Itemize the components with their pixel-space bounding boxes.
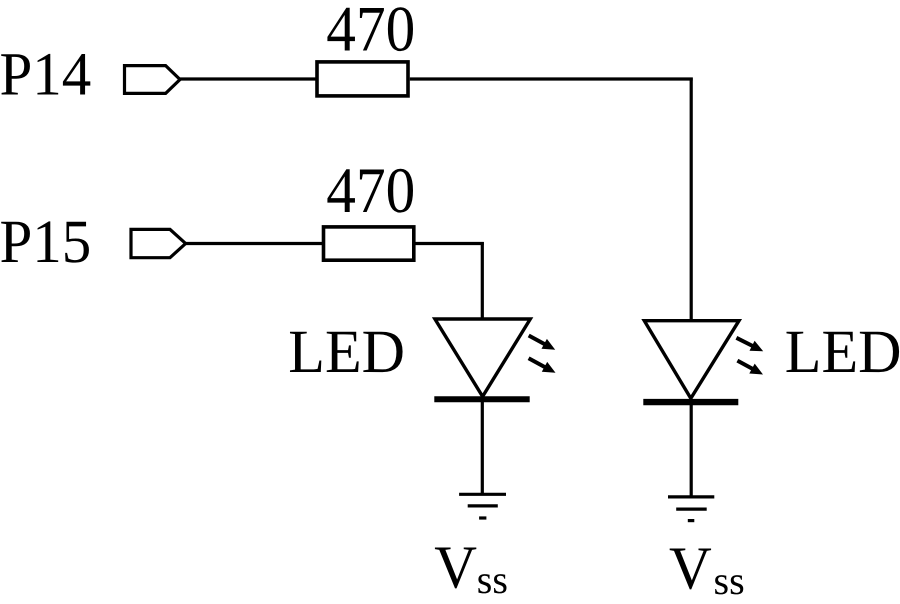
wire P14 pin to R1 [179, 77, 317, 80]
wire LED1 cathode to ground [481, 399, 484, 494]
wire P15 pin to R2 [185, 242, 324, 245]
LED D1 emission arrow 1 [529, 336, 556, 350]
svg-text:ss: ss [477, 557, 508, 602]
resistor R2 body [324, 227, 414, 260]
svg-text:V: V [669, 535, 712, 602]
wire corner down to LED2 anode [690, 78, 693, 323]
wire R1 to corner [410, 77, 693, 80]
svg-text:LED: LED [785, 318, 900, 386]
LED D2 emission arrow 2 [737, 361, 763, 375]
net Vss label (right) [669, 535, 745, 603]
pin P14 connector [125, 66, 181, 94]
LED D2 cathode bar [643, 399, 738, 405]
svg-text:470: 470 [326, 0, 415, 66]
LED D1 triangle [435, 319, 530, 397]
LED D2 emission arrow 1 [736, 338, 763, 352]
pin P15 connector [131, 229, 186, 257]
LED D1 cathode bar [434, 396, 529, 402]
wire LED2 cathode to ground [690, 402, 693, 497]
net Vss label (left) [434, 535, 508, 602]
ground GND1 [459, 494, 506, 518]
svg-text:ss: ss [714, 558, 745, 603]
LED D1 emission arrow 2 [529, 358, 556, 373]
ground GND2 [668, 497, 714, 521]
LED D2 triangle [644, 321, 739, 399]
svg-text:P15: P15 [0, 208, 91, 276]
svg-text:P14: P14 [0, 40, 91, 108]
wire corner down to LED1 anode [481, 242, 484, 321]
wire R2 to corner [414, 242, 484, 245]
resistor R1 body [317, 62, 408, 96]
svg-text:470: 470 [326, 155, 415, 227]
svg-text:LED: LED [288, 318, 405, 386]
svg-text:V: V [434, 535, 477, 602]
